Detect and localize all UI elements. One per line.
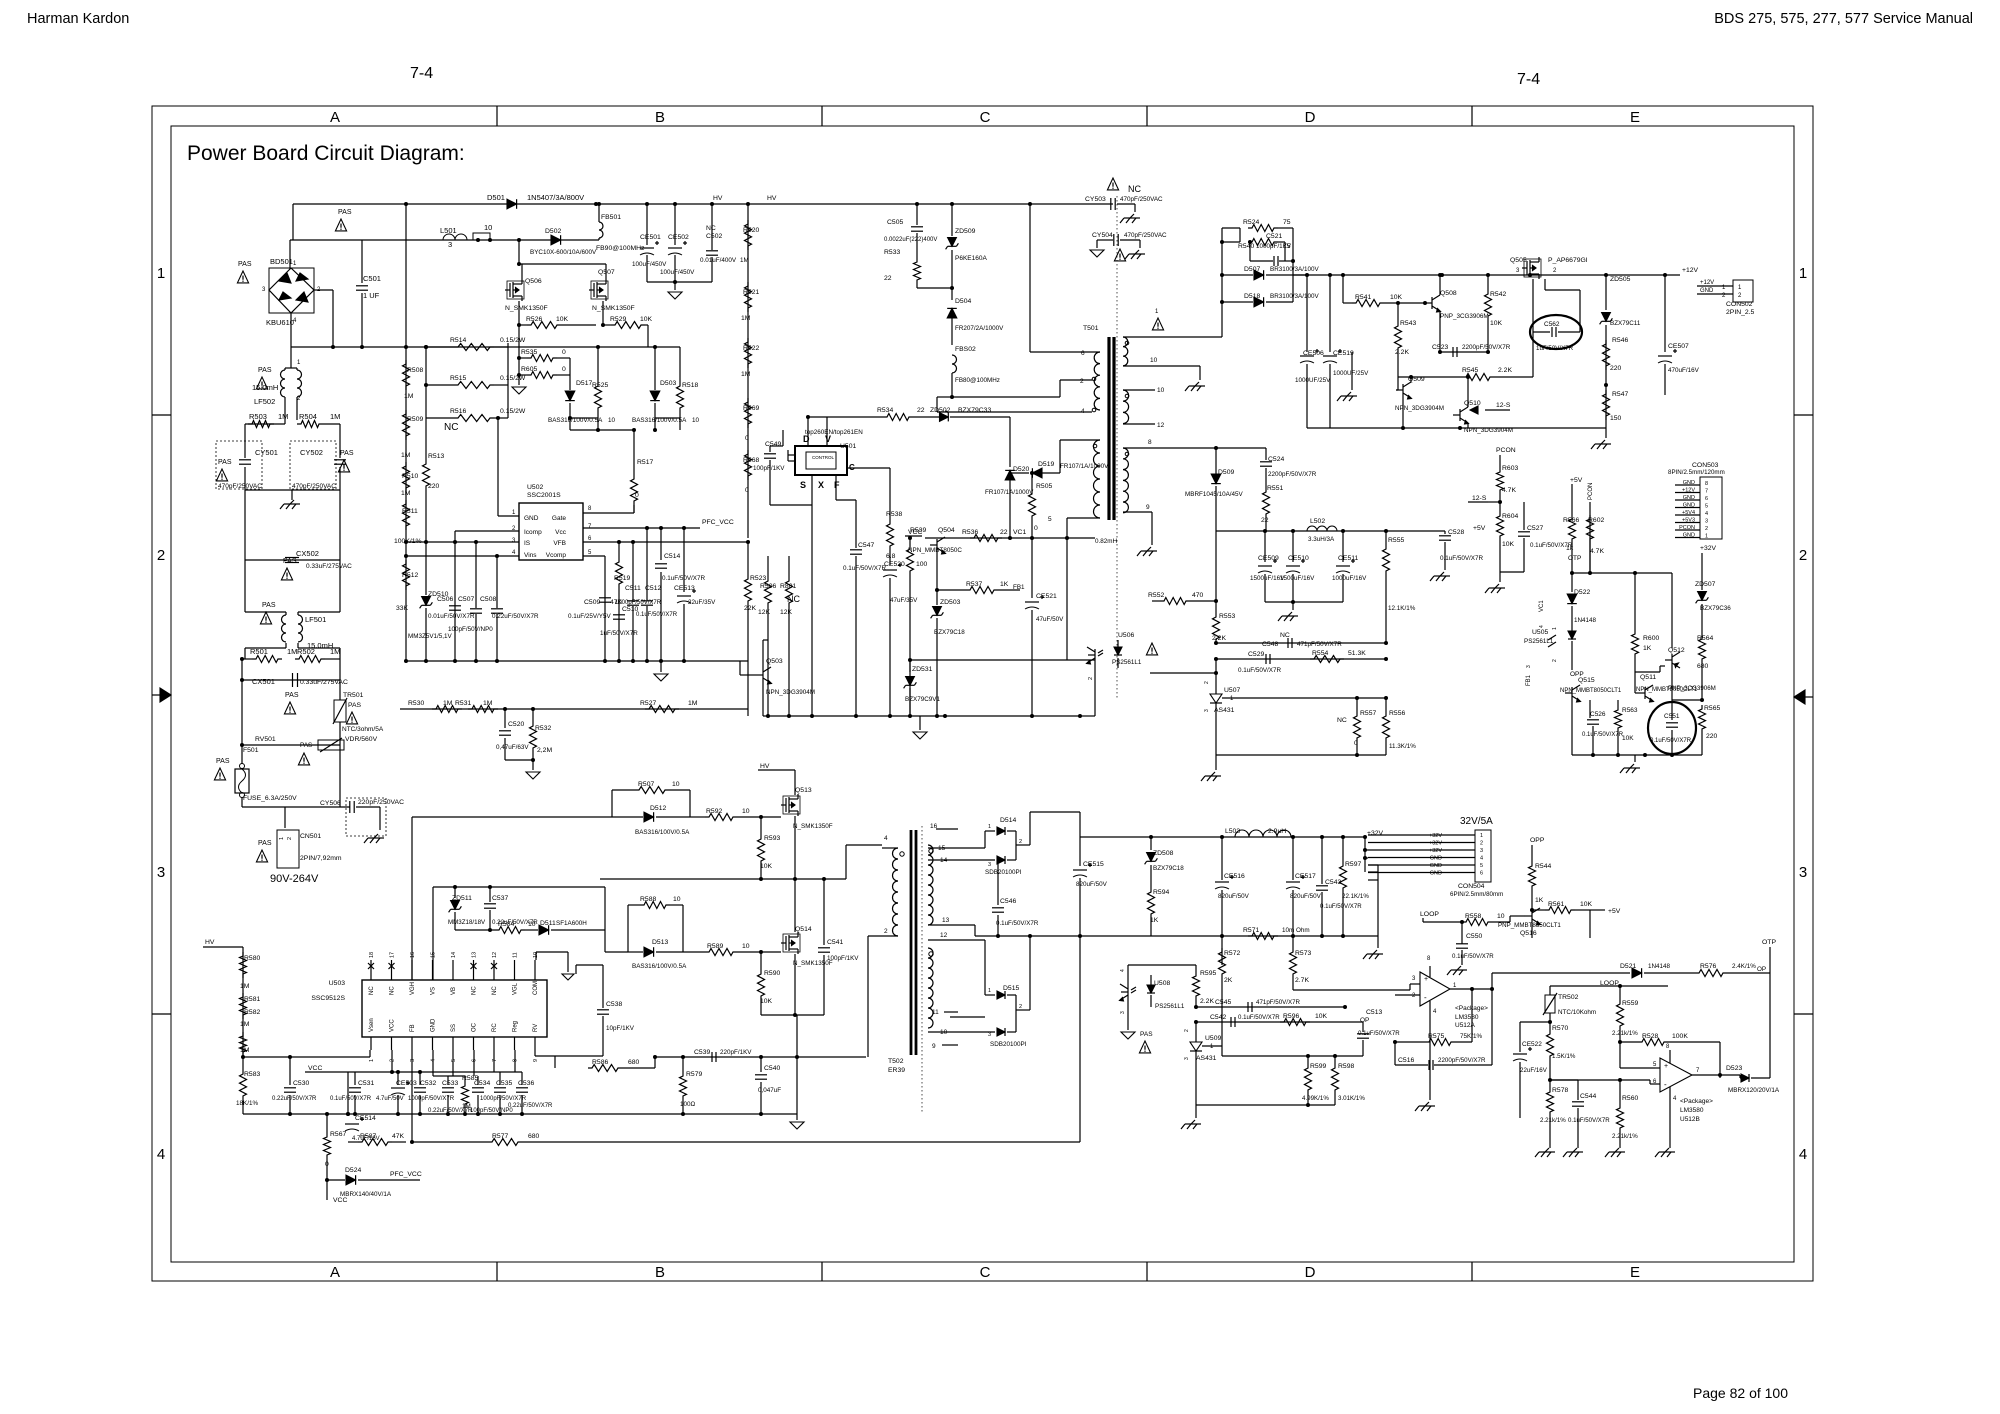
resistor R529 xyxy=(602,301,604,325)
svg-text:0.33uF/275VAC: 0.33uF/275VAC xyxy=(306,563,352,570)
svg-text:R599: R599 xyxy=(1310,1063,1326,1070)
svg-text:4.7K: 4.7K xyxy=(1590,548,1604,555)
svg-text:10K: 10K xyxy=(640,316,653,323)
wire T501 pin4 xyxy=(936,397,938,412)
svg-text:R540: R540 xyxy=(1238,243,1254,250)
svg-text:C539: C539 xyxy=(694,1049,710,1056)
shunt U509 AS431 xyxy=(1195,1022,1197,1042)
svg-text:0.01uF/400V: 0.01uF/400V xyxy=(700,257,737,264)
svg-text:7: 7 xyxy=(1705,489,1708,495)
svg-text:R525: R525 xyxy=(592,382,608,389)
svg-text:R530: R530 xyxy=(408,700,424,707)
svg-text:NTC/3ohm/5A: NTC/3ohm/5A xyxy=(342,726,384,733)
transformer T501 sec winding C xyxy=(1123,448,1128,513)
svg-text:100: 100 xyxy=(916,561,928,568)
wire U502 Gate pin8 to R517 xyxy=(583,512,634,514)
resistor R503 xyxy=(284,420,286,424)
svg-text:BZX79C18: BZX79C18 xyxy=(934,629,965,636)
wire 12V rect inputs xyxy=(1222,274,1240,276)
resistor R575 xyxy=(1395,1041,1425,1043)
svg-text:COM: COM xyxy=(533,981,539,995)
diode D502 xyxy=(551,235,561,245)
svg-text:C513: C513 xyxy=(1366,1009,1382,1016)
resistor R592 xyxy=(690,816,705,818)
svg-text:R551: R551 xyxy=(1267,485,1283,492)
wire Q503 collector xyxy=(763,639,768,641)
svg-text:100uF/450V: 100uF/450V xyxy=(632,261,667,268)
resistor R501 xyxy=(242,658,252,660)
svg-text:PNP_3CG3906M: PNP_3CG3906M xyxy=(1440,313,1489,320)
resistor R525 xyxy=(597,347,599,382)
capacitor C527 xyxy=(1500,501,1524,503)
inductor L502 xyxy=(1307,526,1337,531)
svg-text:0: 0 xyxy=(325,1161,329,1168)
svg-text:22.1K/1%: 22.1K/1% xyxy=(1342,893,1369,900)
svg-text:SSC9512S: SSC9512S xyxy=(311,995,345,1002)
diode D503 xyxy=(654,347,656,390)
svg-text:D520: D520 xyxy=(1013,466,1029,473)
resistor R589 xyxy=(683,951,705,953)
svg-text:X: X xyxy=(818,480,824,490)
capacitor C524 xyxy=(1265,448,1267,460)
resistor R579 xyxy=(682,1057,684,1072)
svg-text:D503: D503 xyxy=(660,380,676,387)
svg-text:PAS: PAS xyxy=(285,692,299,699)
resistor R518 xyxy=(679,347,681,382)
svg-text:R509: R509 xyxy=(407,416,423,423)
svg-text:R501: R501 xyxy=(250,647,268,656)
capacitor CE519 xyxy=(1329,275,1331,352)
svg-text:R589: R589 xyxy=(707,943,723,950)
resistor R602 xyxy=(1589,502,1591,515)
svg-text:CY504: CY504 xyxy=(1092,232,1113,239)
svg-text:470: 470 xyxy=(1192,592,1204,599)
capacitor C534 xyxy=(472,1087,484,1089)
resistor R578 xyxy=(1549,1080,1551,1088)
svg-text:1M: 1M xyxy=(240,1021,250,1028)
svg-text:HV: HV xyxy=(767,195,777,202)
svg-text:1N5407/3A/800V: 1N5407/3A/800V xyxy=(527,193,584,202)
svg-text:PAS: PAS xyxy=(1140,1031,1153,1038)
wire CY bank xyxy=(244,424,246,452)
svg-text:FB80@100MHz: FB80@100MHz xyxy=(955,377,1000,384)
resistor R564 xyxy=(1701,630,1703,635)
svg-text:C533: C533 xyxy=(442,1080,458,1087)
svg-text:C545: C545 xyxy=(1215,999,1231,1006)
svg-text:PAS: PAS xyxy=(262,602,276,609)
wire HV top bus xyxy=(293,203,1113,205)
svg-text:7: 7 xyxy=(492,1059,498,1062)
svg-text:C523: C523 xyxy=(1432,344,1448,351)
svg-text:10: 10 xyxy=(742,808,750,815)
svg-text:1M: 1M xyxy=(278,412,288,421)
svg-text:NC: NC xyxy=(472,986,478,995)
resistor R544 xyxy=(1531,852,1533,862)
resistor R508 chain xyxy=(405,347,407,661)
svg-text:471pF/50V/X7R: 471pF/50V/X7R xyxy=(1256,999,1301,1006)
svg-text:RV: RV xyxy=(533,1024,539,1032)
svg-text:1N4148: 1N4148 xyxy=(1648,963,1671,970)
resistor R559 xyxy=(1619,986,1621,1000)
svg-text:R557: R557 xyxy=(1360,710,1376,717)
svg-text:1: 1 xyxy=(988,824,991,830)
svg-text:D513: D513 xyxy=(652,939,668,946)
svg-text:R556: R556 xyxy=(1389,710,1405,717)
capacitor C531 xyxy=(502,1072,504,1085)
svg-text:8PIN/2.5mm/120mm: 8PIN/2.5mm/120mm xyxy=(1668,469,1725,476)
svg-text:10: 10 xyxy=(940,1029,948,1036)
grid row ticks right xyxy=(1794,414,1813,416)
wire VC1 row xyxy=(925,537,1095,539)
svg-text:R519: R519 xyxy=(614,575,630,582)
svg-text:C542: C542 xyxy=(1210,1014,1226,1021)
capacitor C509 xyxy=(604,596,606,661)
wire R527 row xyxy=(400,708,748,710)
svg-text:9: 9 xyxy=(1146,504,1150,511)
thermistor TR501 xyxy=(339,680,341,700)
svg-text:Gate: Gate xyxy=(552,515,566,522)
svg-text:2: 2 xyxy=(157,547,165,564)
svg-text:220pF/1KV: 220pF/1KV xyxy=(720,1049,752,1056)
wire T502 primary top xyxy=(824,878,846,880)
svg-text:R516: R516 xyxy=(450,408,466,415)
svg-text:R566: R566 xyxy=(1563,517,1579,524)
resistor R532 xyxy=(532,709,534,722)
wire R534 row xyxy=(808,416,883,418)
svg-text:7-4: 7-4 xyxy=(410,65,433,82)
svg-text:C536: C536 xyxy=(518,1080,534,1087)
wire U508 to R595 node xyxy=(1134,964,1196,966)
svg-text:4: 4 xyxy=(1081,408,1085,415)
resistor R599 xyxy=(1307,1056,1309,1064)
wire AC L R514 net xyxy=(405,204,407,347)
zener ZD502 xyxy=(913,416,940,418)
svg-text:R598: R598 xyxy=(1338,1063,1354,1070)
svg-text:2.4K/1%: 2.4K/1% xyxy=(1732,963,1756,970)
svg-text:BAS316/100V/0.5A: BAS316/100V/0.5A xyxy=(635,829,690,836)
ground 32V rail xyxy=(1377,837,1379,948)
wire Vsen row xyxy=(243,1056,370,1058)
svg-text:0: 0 xyxy=(745,435,749,442)
svg-text:1000uF/16V: 1000uF/16V xyxy=(1332,575,1367,582)
svg-text:FB1: FB1 xyxy=(1526,674,1532,686)
svg-text:CE516: CE516 xyxy=(1224,873,1245,880)
svg-text:2: 2 xyxy=(1080,378,1084,385)
resistor R586 xyxy=(547,1067,555,1069)
svg-text:7-4: 7-4 xyxy=(1517,71,1540,88)
svg-text:R584: R584 xyxy=(498,921,514,928)
svg-text:C535: C535 xyxy=(496,1080,512,1087)
wire D509 input xyxy=(1214,446,1218,450)
svg-text:0: 0 xyxy=(635,492,639,499)
svg-text:D: D xyxy=(1305,109,1316,126)
svg-text:47uF/50V: 47uF/50V xyxy=(1036,616,1064,623)
capacitor C542 xyxy=(1230,1017,1232,1027)
svg-text:2: 2 xyxy=(1019,839,1022,845)
svg-text:VGH: VGH xyxy=(410,982,416,995)
svg-text:3: 3 xyxy=(157,864,165,881)
svg-text:1K: 1K xyxy=(1535,897,1544,904)
svg-text:Q511: Q511 xyxy=(1640,674,1656,681)
svg-text:2200pF/50V/X7R: 2200pF/50V/X7R xyxy=(1268,471,1317,478)
svg-text:PFC_VCC: PFC_VCC xyxy=(702,519,734,526)
svg-text:R579: R579 xyxy=(686,1071,702,1078)
wire FB pin3 xyxy=(411,1050,413,1142)
svg-text:Q504: Q504 xyxy=(938,527,955,534)
svg-text:2.2K: 2.2K xyxy=(1200,998,1214,1005)
svg-text:PNP_MMBT8550CLT1: PNP_MMBT8550CLT1 xyxy=(1498,922,1561,929)
svg-text:SDB20100PI: SDB20100PI xyxy=(990,1041,1027,1048)
ferrite FB501 xyxy=(597,202,601,206)
svg-text:C537: C537 xyxy=(492,895,508,902)
resistor R597 xyxy=(1342,837,1344,862)
resistor 10 L501 damper xyxy=(473,233,490,240)
svg-text:CN501: CN501 xyxy=(300,833,321,840)
resistor R536 xyxy=(970,535,1002,542)
wire ZD502 to D520 xyxy=(1009,417,1011,467)
svg-text:R502: R502 xyxy=(297,647,315,656)
svg-text:C532: C532 xyxy=(420,1080,436,1087)
svg-text:CE510: CE510 xyxy=(1288,555,1309,562)
svg-text:FB90@100MHz: FB90@100MHz xyxy=(596,245,645,252)
capacitor CY501 xyxy=(216,441,262,489)
diode D523 xyxy=(1741,1074,1749,1082)
svg-text:6: 6 xyxy=(1081,350,1085,357)
resistor R594 xyxy=(1150,880,1152,888)
svg-text:10K: 10K xyxy=(1580,901,1593,908)
svg-text:BR3100/3A/100V: BR3100/3A/100V xyxy=(1270,266,1319,273)
svg-text:CON504: CON504 xyxy=(1458,883,1485,890)
svg-text:1M: 1M xyxy=(404,393,414,400)
svg-text:0,047uF: 0,047uF xyxy=(758,1087,781,1094)
svg-text:ER39: ER39 xyxy=(888,1067,905,1074)
svg-text:N_SMK1350F: N_SMK1350F xyxy=(793,823,833,830)
left fold arrow xyxy=(152,694,160,696)
svg-text:1000pF/1KV: 1000pF/1KV xyxy=(1256,243,1292,250)
svg-text:BR3100/3A/100V: BR3100/3A/100V xyxy=(1270,293,1319,300)
svg-text:HV: HV xyxy=(760,763,770,770)
capacitor C549 xyxy=(769,446,771,452)
svg-text:1: 1 xyxy=(279,837,285,840)
svg-text:+5V: +5V xyxy=(1570,477,1583,484)
svg-text:Vins: Vins xyxy=(524,552,537,559)
svg-text:22: 22 xyxy=(884,275,892,282)
wire U501 F pin down xyxy=(835,475,837,500)
svg-text:U509: U509 xyxy=(1205,1035,1221,1042)
svg-text:6: 6 xyxy=(1480,871,1483,877)
right fold arrow xyxy=(1805,696,1813,698)
svg-text:U503: U503 xyxy=(329,980,345,987)
svg-text:2PIN_2.5: 2PIN_2.5 xyxy=(1726,309,1755,316)
svg-text:10K: 10K xyxy=(1490,320,1503,327)
svg-text:10: 10 xyxy=(742,943,750,950)
wire U512B output xyxy=(1692,1074,1740,1076)
svg-text:Q515: Q515 xyxy=(1578,677,1595,684)
svg-text:5: 5 xyxy=(451,1059,457,1062)
svg-text:C502: C502 xyxy=(706,233,722,240)
warning NC CY503 xyxy=(1107,178,1118,190)
capacitor C540 xyxy=(760,1057,762,1072)
capacitor C538 xyxy=(602,965,604,1008)
resistor R539 xyxy=(909,538,911,545)
svg-text:C548: C548 xyxy=(1262,641,1278,648)
svg-text:FB: FB xyxy=(410,1024,416,1032)
resistor R534 xyxy=(883,414,913,421)
svg-text:2: 2 xyxy=(1204,681,1210,684)
svg-text:10K: 10K xyxy=(1502,541,1515,548)
wire U501 S pin down xyxy=(811,475,813,505)
opamp U512B LM3580 xyxy=(1660,1058,1692,1092)
ground bottom mid xyxy=(796,1057,798,1114)
svg-text:BAS316/100V/0.5A: BAS316/100V/0.5A xyxy=(632,963,687,970)
svg-text:R513: R513 xyxy=(428,453,444,460)
svg-text:2.2K: 2.2K xyxy=(1498,367,1512,374)
svg-text:D523: D523 xyxy=(1726,1065,1742,1072)
svg-text:R559: R559 xyxy=(1622,1000,1638,1007)
svg-text:11.3K/1%: 11.3K/1% xyxy=(1389,743,1416,750)
svg-text:R546: R546 xyxy=(1612,337,1628,344)
svg-text:1: 1 xyxy=(1552,627,1558,630)
svg-text:2: 2 xyxy=(1019,1004,1022,1010)
svg-text:+32V: +32V xyxy=(1367,830,1384,837)
transformer T501 sec winding A xyxy=(1123,337,1128,366)
svg-text:T502: T502 xyxy=(888,1058,904,1065)
svg-text:0.22uF/50V/X7R: 0.22uF/50V/X7R xyxy=(272,1096,317,1102)
svg-text:BYC10X-600/10A/600V: BYC10X-600/10A/600V xyxy=(530,249,597,256)
svg-text:R604: R604 xyxy=(1502,513,1518,520)
wire +12V rail xyxy=(1293,274,1680,276)
svg-text:0: 0 xyxy=(1354,740,1358,747)
resistor R527 xyxy=(645,706,679,713)
svg-text:12-S: 12-S xyxy=(1496,402,1511,409)
svg-text:B: B xyxy=(655,109,665,126)
svg-text:4.7uF/50V: 4.7uF/50V xyxy=(376,1096,404,1102)
diode D524 xyxy=(326,1180,328,1185)
svg-text:6: 6 xyxy=(1705,496,1708,502)
svg-text:R573: R573 xyxy=(1295,950,1311,957)
svg-text:0.82mH: 0.82mH xyxy=(1095,538,1118,545)
svg-text:Page 82 of 100: Page 82 of 100 xyxy=(1693,1385,1788,1401)
svg-text:11: 11 xyxy=(932,1009,939,1016)
svg-text:2.21k/1%: 2.21k/1% xyxy=(1612,1133,1638,1140)
svg-text:BD501: BD501 xyxy=(270,257,293,266)
wire OTP row to Q512 xyxy=(1572,572,1702,574)
svg-text:18: 18 xyxy=(369,952,375,958)
svg-text:R571: R571 xyxy=(1243,927,1259,934)
svg-text:R515: R515 xyxy=(450,375,466,382)
capacitor C551 circled xyxy=(1648,702,1696,754)
svg-text:C544: C544 xyxy=(1580,1093,1596,1100)
svg-text:0.1uF/50V/X7R: 0.1uF/50V/X7R xyxy=(843,565,887,572)
svg-text:Power Board Circuit Diagram:: Power Board Circuit Diagram: xyxy=(187,142,465,165)
svg-text:R508: R508 xyxy=(407,367,423,374)
svg-text:R595: R595 xyxy=(1200,970,1216,977)
resistor R519 xyxy=(618,542,620,558)
svg-text:0.1uF/50V/X7R: 0.1uF/50V/X7R xyxy=(1440,555,1484,562)
svg-text:220: 220 xyxy=(1610,365,1622,372)
wire Q510 to ZD505 junction xyxy=(1467,419,1606,421)
svg-text:10: 10 xyxy=(672,781,680,788)
svg-text:ZD507: ZD507 xyxy=(1695,581,1716,588)
svg-text:PAS: PAS xyxy=(300,742,312,749)
svg-text:R561: R561 xyxy=(1548,901,1564,908)
svg-text:NC: NC xyxy=(390,986,396,995)
resistor R554 xyxy=(1310,656,1344,663)
svg-text:1 UF: 1 UF xyxy=(363,291,380,300)
diode D513 xyxy=(628,951,643,953)
svg-text:6.8: 6.8 xyxy=(886,553,896,560)
svg-text:R554: R554 xyxy=(1312,650,1328,657)
svg-text:4: 4 xyxy=(1799,1146,1807,1163)
capacitor C562 circled xyxy=(1530,315,1582,349)
svg-text:FR207/2A/1000V: FR207/2A/1000V xyxy=(955,325,1004,332)
capacitor CE515 xyxy=(1079,837,1081,868)
capacitor C510 xyxy=(613,614,625,616)
svg-text:R602: R602 xyxy=(1588,517,1604,524)
resistor R801 xyxy=(788,556,790,577)
svg-text:P_AP6679GI: P_AP6679GI xyxy=(1548,257,1588,264)
wire fb net top xyxy=(1105,964,1151,966)
svg-text:VDR/560V: VDR/560V xyxy=(345,736,378,743)
svg-text:R523: R523 xyxy=(750,575,766,582)
resistor R551 xyxy=(1265,480,1267,488)
svg-text:R569: R569 xyxy=(743,405,759,412)
svg-text:3: 3 xyxy=(1705,519,1708,525)
svg-text:CE507: CE507 xyxy=(1668,343,1689,350)
svg-text:CY501: CY501 xyxy=(255,448,278,457)
svg-text:0.01uF/50V/X7R: 0.01uF/50V/X7R xyxy=(428,613,475,620)
varistor RV501 xyxy=(241,680,243,745)
ground CON504 xyxy=(1373,950,1377,954)
resistor R502 xyxy=(295,656,325,663)
svg-text:32V/5A: 32V/5A xyxy=(1460,816,1493,827)
diode D520 xyxy=(1005,470,1015,480)
resistor R523 xyxy=(747,542,749,575)
svg-text:NPN_MMBT8050CLT1: NPN_MMBT8050CLT1 xyxy=(1560,688,1622,694)
wire R572 R573 taps xyxy=(1221,936,1223,965)
svg-text:R588: R588 xyxy=(640,896,656,903)
svg-text:NPN_MMBT8050C: NPN_MMBT8050C xyxy=(908,547,962,554)
svg-text:2.9uH: 2.9uH xyxy=(1268,828,1286,835)
ground T501 secC xyxy=(1151,512,1153,545)
svg-text:4: 4 xyxy=(1705,511,1708,517)
svg-text:2PIN/7,92mm: 2PIN/7,92mm xyxy=(300,855,342,862)
mosfet Q513 xyxy=(794,770,796,795)
svg-text:R568: R568 xyxy=(743,457,759,464)
wire C539 to T502 pin2 xyxy=(865,1056,867,1058)
svg-text:C512: C512 xyxy=(645,585,661,592)
svg-text:1M: 1M xyxy=(401,452,411,459)
ground C520 R532 xyxy=(505,759,533,761)
zener ZD510 xyxy=(425,542,427,595)
transformer T502 sec bottom tap12 xyxy=(928,939,985,941)
svg-text:C509: C509 xyxy=(584,599,600,606)
mosfet Q507 xyxy=(593,283,595,297)
svg-text:NTC/10Kohm: NTC/10Kohm xyxy=(1558,1009,1596,1016)
wire R573 to opamp+ xyxy=(1293,989,1410,991)
svg-text:GND: GND xyxy=(1430,871,1442,877)
capacitor C516 xyxy=(1394,1042,1396,1065)
svg-text:PAS: PAS xyxy=(216,758,230,765)
capacitor C539 xyxy=(711,1052,713,1062)
svg-text:+: + xyxy=(1664,1063,1668,1070)
resistor R540 xyxy=(1248,239,1278,246)
svg-text:4: 4 xyxy=(1539,625,1545,628)
svg-text:1K: 1K xyxy=(1000,581,1009,588)
svg-text:R580: R580 xyxy=(244,955,260,962)
svg-text:CE503: CE503 xyxy=(396,1080,417,1087)
capacitor C526 xyxy=(1589,573,1591,700)
